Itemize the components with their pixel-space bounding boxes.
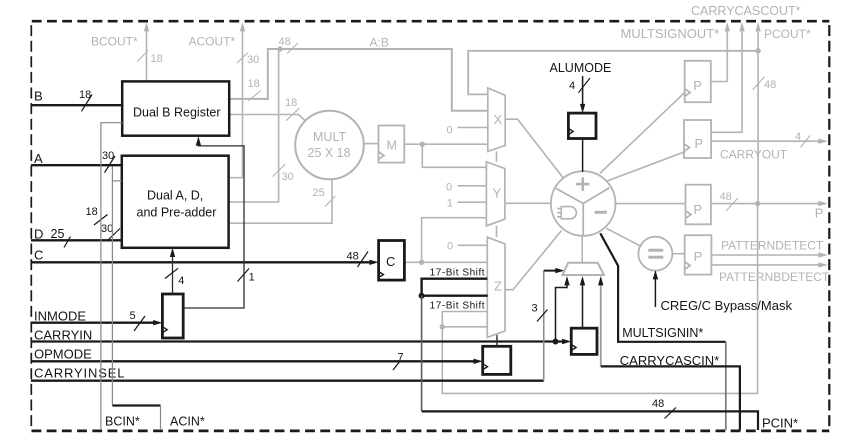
wire MULT to M — [364, 143, 379, 145]
svg-text:25 X 18: 25 X 18 — [308, 146, 351, 160]
svg-text:4: 4 — [569, 80, 575, 92]
svg-text:25: 25 — [51, 227, 65, 241]
mux X — [488, 88, 505, 151]
wire C to Z mux — [404, 261, 487, 263]
svg-text:A:B: A:B — [370, 36, 389, 50]
svg-text:5: 5 — [130, 310, 136, 322]
svg-text:30: 30 — [282, 171, 294, 183]
ALU logic gate — [557, 207, 576, 219]
register P3 — [686, 185, 711, 225]
wire Z mux out to ALU — [505, 231, 562, 290]
wire A(25) to MULT — [229, 179, 332, 224]
wire PATTERNDETECT — [711, 254, 823, 256]
wire ALU to comparator — [606, 228, 641, 246]
svg-text:17-Bit Shift: 17-Bit Shift — [430, 268, 486, 279]
register CARRYIN — [571, 328, 597, 354]
wire P1 to MULTSIGNOUT — [711, 26, 728, 82]
svg-text:MULT: MULT — [313, 130, 346, 144]
wire INMODE reg to pre-adder — [172, 253, 174, 295]
wire BCIN — [101, 123, 122, 430]
wire BCOUT — [146, 26, 148, 81]
svg-text:Y: Y — [493, 186, 502, 201]
svg-text:18: 18 — [285, 97, 297, 109]
svg-text:ACOUT*: ACOUT* — [189, 34, 236, 48]
register OPMODE — [483, 346, 511, 374]
svg-text:CARRYCASCOUT*: CARRYCASCOUT* — [691, 4, 801, 18]
svg-text:0: 0 — [447, 241, 453, 253]
svg-text:48: 48 — [652, 398, 664, 410]
svg-text:25: 25 — [313, 187, 325, 199]
svg-text:ACIN*: ACIN* — [170, 415, 205, 429]
wire P3 out / P port — [711, 203, 824, 205]
wire A:B bus — [229, 49, 488, 111]
svg-text:CARRYOUT: CARRYOUT — [720, 148, 788, 162]
multiplier MULT 25x18 — [295, 111, 364, 180]
svg-text:48: 48 — [764, 79, 776, 91]
wire MULTSIGNIN — [600, 233, 726, 341]
svg-text:INMODE: INMODE — [34, 309, 86, 324]
wire comparator to P4 — [672, 253, 685, 255]
svg-text:7: 7 — [398, 351, 404, 363]
svg-text:BCOUT*: BCOUT* — [91, 34, 138, 48]
svg-text:PATTERNBDETECT: PATTERNBDETECT — [719, 270, 830, 284]
svg-text:OPMODE: OPMODE — [34, 347, 92, 362]
svg-text:ALUMODE: ALUMODE — [550, 61, 612, 75]
svg-text:17-Bit Shift: 17-Bit Shift — [430, 301, 486, 312]
svg-text:48: 48 — [279, 36, 291, 48]
wire CARRYOUT — [711, 140, 823, 142]
wire ALU to P3 — [615, 203, 686, 205]
wire M to X mux — [404, 143, 488, 145]
svg-text:PCOUT*: PCOUT* — [764, 27, 811, 41]
wire CARRYCASCIN to trapezoid — [600, 281, 602, 366]
wire C to Y mux — [422, 218, 487, 263]
svg-text:B: B — [34, 89, 43, 104]
wire ACOUT — [229, 26, 243, 178]
wire X mux out to ALU — [505, 119, 564, 178]
mux Z — [487, 237, 505, 337]
wire P2 to CARRYCASCOUT — [711, 26, 742, 132]
svg-text:C: C — [386, 254, 395, 269]
svg-text:P: P — [694, 249, 703, 264]
node P feedback branch — [440, 324, 445, 329]
wire P feedback top to X mux — [468, 51, 758, 95]
node PCOUT junction — [755, 48, 760, 53]
register M — [379, 126, 405, 163]
wire ALU to P2 — [607, 152, 685, 182]
svg-text:BCIN*: BCIN* — [105, 415, 140, 429]
svg-text:48: 48 — [347, 251, 359, 263]
wire 17-bit shift 2 — [422, 295, 488, 297]
node P3 junction — [755, 201, 760, 206]
svg-text:Dual A, D,: Dual A, D, — [147, 189, 203, 203]
svg-text:and Pre-adder: and Pre-adder — [137, 206, 217, 220]
svg-text:M: M — [387, 139, 397, 153]
svg-text:A: A — [34, 151, 43, 166]
svg-text:CARRYINSEL: CARRYINSEL — [34, 366, 125, 381]
node PCIN junction — [419, 293, 425, 299]
ALU plus — [576, 177, 590, 190]
svg-text:P: P — [694, 202, 703, 217]
svg-text:30: 30 — [247, 54, 259, 66]
wire A up to A:B — [229, 49, 279, 202]
svg-text:0: 0 — [446, 182, 452, 194]
svg-text:CREG/C Bypass/Mask: CREG/C Bypass/Mask — [661, 298, 793, 313]
wire B to MULT — [229, 115, 305, 122]
svg-text:18: 18 — [151, 53, 163, 65]
svg-text:CARRYIN: CARRYIN — [34, 328, 92, 343]
svg-text:18: 18 — [86, 206, 98, 218]
node C junction — [419, 260, 424, 265]
gray top labels — [91, 4, 811, 50]
wire CARRYIN reg to trapezoid — [582, 281, 584, 328]
wire ALUMODE reg to ALU — [582, 139, 584, 172]
svg-text:1: 1 — [447, 198, 453, 210]
wire PCIN — [422, 411, 758, 430]
svg-text:4: 4 — [178, 275, 184, 287]
node CARRYIN branch — [553, 339, 559, 345]
wire Y mux out to ALU — [505, 202, 552, 204]
wire CREG bypass arrow — [654, 275, 656, 308]
svg-text:Dual B Register: Dual B Register — [133, 106, 221, 120]
ALU minus — [595, 211, 607, 214]
wire M branch to Y mux — [422, 144, 486, 167]
ALU circle — [551, 171, 616, 236]
mux select chain — [496, 151, 498, 346]
mux Y — [486, 162, 505, 226]
wire ACIN — [112, 167, 121, 406]
register P2 — [684, 120, 711, 158]
wire OPMODE reg to Z select — [496, 335, 498, 346]
svg-text:0: 0 — [447, 125, 453, 137]
register P4 — [685, 235, 712, 274]
svg-text:30: 30 — [102, 150, 114, 162]
svg-text:CARRYCASCIN*: CARRYCASCIN* — [620, 353, 719, 368]
register INMODE — [162, 294, 183, 338]
svg-text:X: X — [494, 112, 503, 127]
dashed slice boundary — [32, 20, 830, 23]
svg-text:PATTERNDETECT: PATTERNDETECT — [721, 239, 824, 253]
svg-text:P: P — [693, 78, 702, 93]
svg-text:PCIN*: PCIN* — [762, 416, 798, 431]
wire PCIN riser — [421, 296, 423, 411]
svg-text:18: 18 — [79, 89, 91, 101]
wire P feedback loop bottom — [442, 204, 757, 394]
svg-text:P: P — [695, 136, 704, 151]
register Dual B — [122, 81, 229, 135]
svg-text:3: 3 — [532, 303, 538, 315]
wire PATTERNBDETECT — [711, 264, 823, 266]
svg-text:MULTSIGNIN*: MULTSIGNIN* — [622, 326, 703, 340]
svg-text:18: 18 — [248, 78, 260, 90]
svg-text:48: 48 — [720, 191, 732, 203]
node A:B junction — [277, 46, 282, 51]
wire CARRYCASCIN — [601, 366, 740, 430]
mux CARRYINSEL trapezoid — [563, 263, 605, 275]
register P1 — [685, 61, 711, 102]
svg-text:C: C — [34, 248, 43, 263]
wire ALU to P1 — [600, 92, 686, 174]
svg-text:Z: Z — [494, 279, 502, 294]
wire INMODE reg to B register — [183, 142, 244, 309]
svg-text:1: 1 — [249, 271, 255, 283]
svg-text:P: P — [815, 206, 824, 221]
svg-text:30: 30 — [101, 223, 113, 235]
svg-text:4: 4 — [795, 131, 801, 143]
wire PCOUT vertical — [757, 26, 759, 51]
svg-text:MULTSIGNOUT*: MULTSIGNOUT* — [621, 26, 720, 41]
register Dual A D pre-adder — [122, 156, 229, 248]
wire trapezoid to ALU — [581, 235, 583, 263]
register C — [379, 241, 405, 281]
comparator equals circle — [638, 237, 672, 271]
node M branch — [420, 142, 425, 147]
wire CARRYIN branch to trapezoid — [556, 281, 568, 342]
